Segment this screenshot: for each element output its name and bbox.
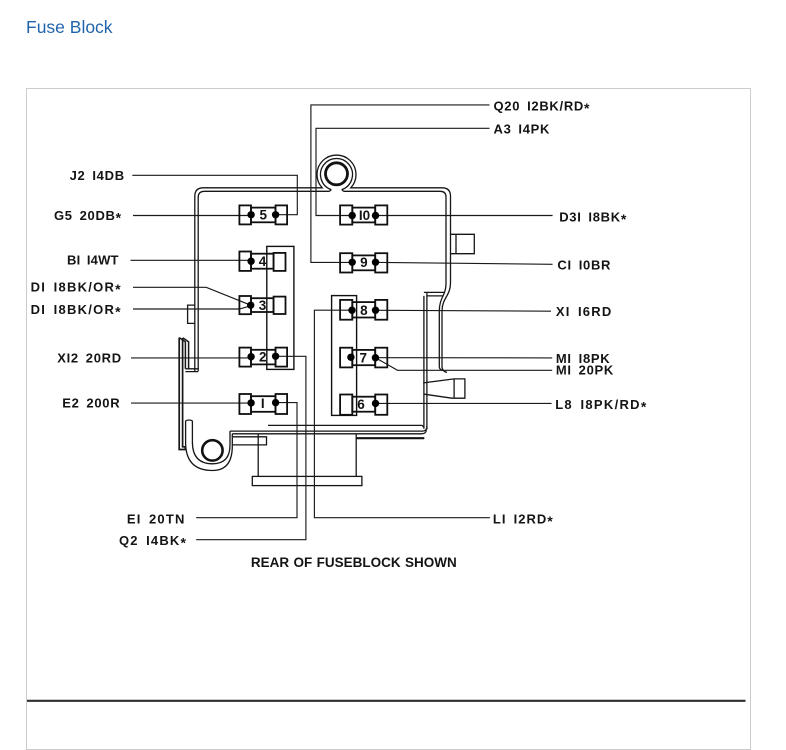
wire D1 upper diagonal to fuse 3 xyxy=(133,287,251,305)
fuse 4 xyxy=(239,252,285,271)
fuse block housing inner outline xyxy=(198,159,446,372)
svg-text:9: 9 xyxy=(360,255,368,270)
svg-text:XI I6RD: XI I6RD xyxy=(556,304,613,319)
wire A3 to fuse 10 left xyxy=(316,128,490,215)
svg-text:G5 20DB*: G5 20DB* xyxy=(54,208,122,226)
fuse 8 xyxy=(340,300,387,320)
svg-text:8: 8 xyxy=(360,303,368,318)
pedestal right leg xyxy=(355,434,357,477)
upper right tab xyxy=(451,234,475,253)
wire fuse 2 right to Q2 xyxy=(196,356,306,539)
page heading xyxy=(26,17,113,38)
wire fuse 7 right to M1 20PK xyxy=(375,358,552,371)
right ledge xyxy=(424,292,445,296)
svg-text:A3 I4PK: A3 I4PK xyxy=(494,121,551,136)
svg-text:D3I I8BK*: D3I I8BK* xyxy=(559,210,627,228)
wire X12 to fuse 2 left xyxy=(131,357,251,359)
svg-text:7: 7 xyxy=(360,350,368,365)
pedestal left leg xyxy=(257,434,259,477)
bottom left mounting ring xyxy=(202,440,222,460)
left inner strip xyxy=(179,338,188,369)
wire D1 lower to fuse 3 xyxy=(133,306,251,309)
svg-text:DI I8BK/OR*: DI I8BK/OR* xyxy=(31,302,122,320)
svg-text:REAR OF FUSEBLOCK SHOWN: REAR OF FUSEBLOCK SHOWN xyxy=(251,555,457,570)
heavy lower ledge right xyxy=(356,437,424,439)
fuse 1 xyxy=(239,394,287,414)
fuse 10 xyxy=(340,205,387,224)
wire fuse 9 right to C1 xyxy=(376,262,553,264)
svg-text:DI I8BK/OR*: DI I8BK/OR* xyxy=(31,280,122,298)
svg-text:LI I2RD*: LI I2RD* xyxy=(493,511,554,529)
left column connector rectangle xyxy=(267,246,294,369)
fuse 9 xyxy=(340,253,387,272)
svg-text:EI 20TN: EI 20TN xyxy=(127,511,186,526)
svg-text:6: 6 xyxy=(357,397,365,412)
fuse 6 xyxy=(340,395,387,415)
svg-text:3: 3 xyxy=(259,298,267,313)
lower right wall xyxy=(424,292,427,429)
fuse 3 xyxy=(239,296,285,314)
mounting ring on top bump xyxy=(326,163,348,185)
scan bottom rule xyxy=(27,700,746,702)
svg-text:XI2 20RD: XI2 20RD xyxy=(57,351,122,366)
wire fuse 10 right to D31 xyxy=(376,215,553,217)
svg-text:5: 5 xyxy=(260,208,268,223)
svg-text:E2 200R: E2 200R xyxy=(62,396,120,411)
wire fuse 7 right to M1 18PK xyxy=(376,357,553,359)
wire fuse 6 right to L8 xyxy=(376,402,552,404)
svg-text:Q2 I4BK*: Q2 I4BK* xyxy=(119,533,187,551)
svg-text:BI I4WT: BI I4WT xyxy=(67,252,119,267)
fuse 2 xyxy=(239,348,287,367)
left wall small tab xyxy=(188,305,195,323)
wire Q20 to fuse 9 left xyxy=(311,105,490,263)
wire fuse 8 right to X1 xyxy=(376,309,552,312)
fuse 7 xyxy=(340,348,387,368)
fuse block housing outer outline xyxy=(195,155,451,372)
wire J2 to fuse 5 right xyxy=(132,175,297,214)
bottom left curl xyxy=(186,420,233,471)
wire fuse 8 left to L1 xyxy=(314,310,490,518)
bottom left step box xyxy=(233,437,267,445)
fuse 5 xyxy=(239,205,287,224)
left outer wall xyxy=(179,338,185,450)
pedestal flange xyxy=(252,476,362,485)
svg-text:2: 2 xyxy=(259,350,267,365)
wire fuse 1 right to E1 xyxy=(196,403,297,518)
svg-text:I0: I0 xyxy=(359,208,370,223)
svg-text:MI 20PK: MI 20PK xyxy=(556,362,614,377)
pointed right tab xyxy=(423,379,465,398)
svg-text:J2 I4DB: J2 I4DB xyxy=(70,168,125,183)
wire E2 to fuse 1 left xyxy=(131,402,251,404)
svg-text:I: I xyxy=(261,396,265,411)
left wall lower cap lines xyxy=(185,369,198,372)
wire B1 to fuse 4 left xyxy=(131,259,252,261)
svg-text:CI I0BR: CI I0BR xyxy=(557,258,611,273)
right column connector rectangle xyxy=(332,296,357,416)
wire G5 to fuse 5 left xyxy=(133,215,251,217)
housing bottom edge lines xyxy=(230,425,427,433)
svg-text:4: 4 xyxy=(259,254,267,269)
svg-text:L8 I8PK/RD*: L8 I8PK/RD* xyxy=(555,397,647,415)
svg-text:Q20 I2BK/RD*: Q20 I2BK/RD* xyxy=(494,99,591,117)
